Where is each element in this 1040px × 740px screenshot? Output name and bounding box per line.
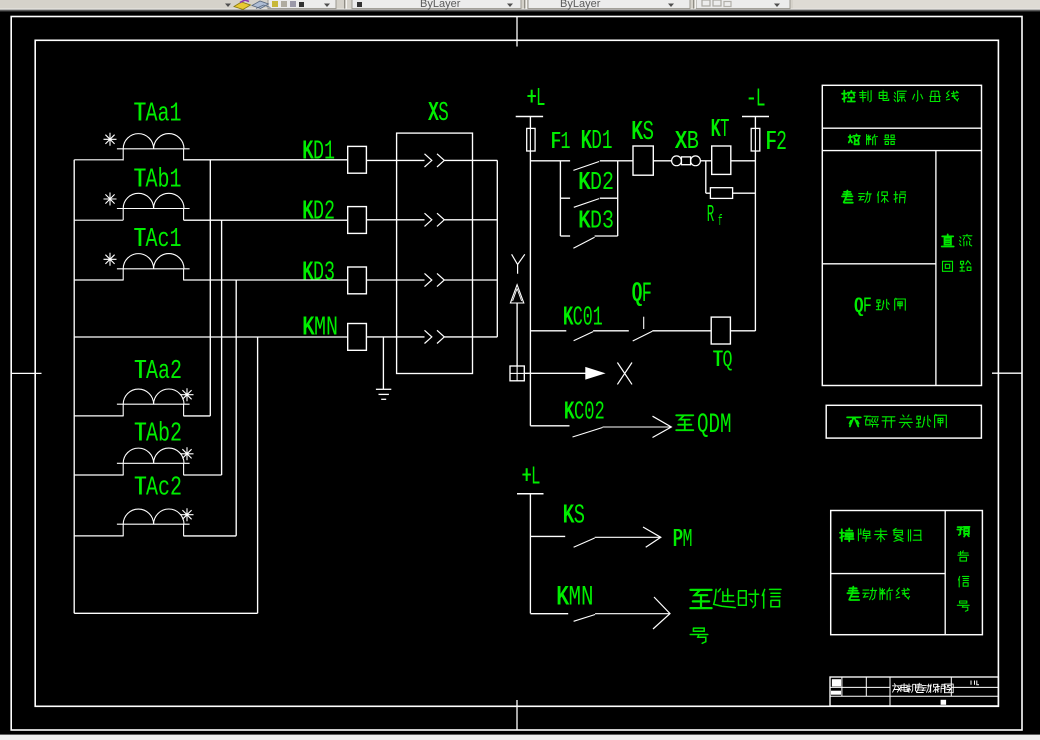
current transformer TAa1: [104, 98, 190, 160]
svg-text:D1: D1: [591, 126, 612, 156]
label QF trip: [854, 296, 905, 319]
svg-text:L: L: [531, 462, 541, 492]
svg-text:T: T: [720, 114, 730, 144]
label differential broken wire: [847, 587, 859, 600]
wire: vertical link v4 KMN row to box bottom: [257, 337, 259, 613]
svg-text:C01: C01: [573, 304, 603, 334]
relay coil KT (time relay): [711, 114, 731, 174]
relay coil KS: [631, 118, 654, 175]
wire: XB to KT: [700, 160, 711, 162]
wire: XS row 2 with test-plug chevrons: [366, 213, 497, 226]
sheet number mark: [971, 681, 979, 685]
svg-text:Ab1: Ab1: [146, 165, 182, 195]
wire: vertical link v3 TAc1-TAc2: [235, 280, 237, 536]
svg-text:D3: D3: [313, 259, 335, 289]
contact KS (signal): [563, 501, 661, 547]
current transformer TAc1: [104, 224, 190, 281]
wire: group2 box bottom: [74, 612, 257, 614]
annotation box: de-excitation switch trip: [826, 405, 981, 438]
svg-text:L: L: [536, 83, 546, 113]
wire: bus row 4 to relay KMN: [74, 336, 347, 338]
wire: contact branch verticals: [559, 161, 561, 236]
svg-text:C02: C02: [574, 398, 605, 427]
contact KD1 (relay contact): [573, 126, 617, 171]
title block: [830, 677, 998, 706]
svg-text:R: R: [707, 202, 715, 229]
node Y (drawn Y mark): [512, 254, 525, 273]
wire: TAa2 bus: [74, 415, 123, 417]
wire: row to KD1 contact: [530, 160, 570, 162]
svg-text:D3: D3: [590, 206, 614, 236]
wire: TQ to -L rail: [730, 330, 755, 332]
connecting link XB: [672, 126, 701, 166]
wire: XS row 1 with test-plug chevrons: [366, 154, 497, 167]
svg-text:Aa1: Aa1: [146, 98, 182, 128]
label differential protection: [842, 191, 853, 203]
wire: bus row 2 TAb1 to relay KD2: [74, 219, 123, 221]
fuse F1: [527, 128, 571, 155]
wire: KC01 row: [530, 330, 566, 332]
label to delay signal (Chinese): [690, 589, 781, 643]
svg-text:MN: MN: [569, 583, 594, 614]
title text: generator differential protection diagram: [892, 684, 901, 693]
wire: vertical link v1 TAa1-TAa2: [209, 160, 211, 416]
up arrow to Y: [510, 285, 523, 366]
fuse F2: [751, 127, 787, 157]
wire: XS row 3 with test-plug chevrons: [366, 273, 497, 286]
svg-text:2: 2: [776, 127, 787, 157]
wire: KS contact row: [530, 535, 565, 537]
svg-text:ByLayer: ByLayer: [420, 0, 461, 10]
resistor Rf branch: [706, 161, 756, 230]
contact KD2 (relay contact): [560, 167, 617, 207]
relay coil KD2: [302, 198, 366, 234]
terminal strip XS: [397, 99, 473, 374]
svg-text:ByLayer: ByLayer: [560, 0, 601, 10]
svg-text:D2: D2: [590, 167, 614, 197]
node +L (positive control bus): [516, 83, 546, 128]
svg-text:S: S: [643, 118, 655, 148]
wire: left common bus (vertical): [73, 160, 75, 614]
svg-text:S: S: [438, 99, 449, 129]
label flag not reset: [840, 528, 854, 541]
svg-text:MN: MN: [314, 314, 338, 344]
svg-text:f: f: [718, 213, 723, 230]
annotation table: DC circuit functions: [822, 85, 981, 385]
wire: bus row 1 TAa1 to relay KD1: [74, 159, 123, 161]
junction box mark: [510, 366, 524, 381]
label control power busbar: [842, 91, 855, 102]
arrow to PM: [643, 527, 661, 547]
arrow to delay signal: [653, 597, 670, 629]
wire: KC02 row: [530, 425, 569, 427]
wire: vertical link v2 TAb1-TAb2: [221, 220, 223, 475]
svg-text:QDM: QDM: [697, 410, 732, 441]
current transformer TAb2: [117, 418, 194, 475]
svg-text:1: 1: [561, 129, 571, 156]
wire: KMN contact row: [530, 613, 568, 615]
relay coil KMN: [302, 314, 366, 351]
wire: KS to XB: [653, 160, 671, 162]
svg-text:Ac2: Ac2: [146, 472, 182, 502]
wire: +L rail down to KC02 row: [529, 152, 531, 426]
current transformer TAb1: [104, 165, 190, 221]
node X (drawn X mark): [617, 363, 632, 385]
current transformer TAc2: [117, 472, 194, 536]
ground symbol below XS: [376, 337, 391, 399]
arrow to QDM: [653, 416, 672, 437]
label warning signal (vertical): [957, 527, 969, 537]
svg-text:F: F: [642, 279, 652, 310]
svg-text:M: M: [683, 524, 693, 554]
relay coil KD1: [302, 138, 366, 174]
svg-text:B: B: [687, 126, 699, 156]
relay coil KD3: [302, 259, 366, 294]
node -L (negative control bus): [742, 83, 769, 128]
label fuse row: [849, 134, 860, 144]
annotation table: alarm signals: [831, 511, 983, 635]
wire: XS row 4 with test-plug chevrons: [366, 330, 497, 343]
svg-text:Aa2: Aa2: [146, 356, 182, 386]
wire: KT to -L rail: [731, 160, 756, 162]
contact KD3 (relay contact): [560, 206, 617, 249]
wire: TAb2 bus: [74, 474, 123, 476]
node +L (second, signal bus): [517, 462, 544, 614]
contact KC02: [564, 398, 672, 437]
status bar strip (bottom): [0, 735, 1040, 740]
svg-text:Ac1: Ac1: [146, 224, 182, 254]
trip coil TQ: [711, 317, 732, 374]
contact KMN (signal): [556, 583, 670, 622]
wire: XS right collector bus: [496, 160, 498, 337]
toolbar strip (AutoCAD UI, cut off at top): [0, 0, 1040, 11]
contact KC01: [563, 304, 629, 341]
label DC circuit (vertical column): [942, 234, 972, 271]
svg-text:F: F: [863, 296, 872, 319]
svg-text:Q: Q: [723, 347, 733, 374]
current transformer TAa2: [117, 356, 194, 416]
svg-text:D1: D1: [313, 138, 335, 168]
breaker auxiliary contact QF: [632, 279, 712, 341]
wire: -L rail down to TQ row: [754, 152, 756, 332]
label to QDM: [676, 410, 731, 441]
wire: to KS coil: [618, 160, 633, 162]
arrow to X: [524, 368, 604, 379]
svg-text:D2: D2: [313, 198, 335, 228]
svg-text:Ab2: Ab2: [146, 418, 182, 448]
wire: TAc2 bus: [74, 535, 123, 537]
svg-text:L: L: [756, 83, 766, 113]
svg-text:S: S: [574, 501, 585, 531]
wire: bus row 3 TAc1 to relay KD3: [74, 279, 123, 281]
